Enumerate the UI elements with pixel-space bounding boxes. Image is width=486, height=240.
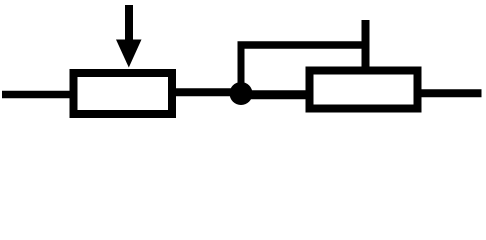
potentiometer R1 body [74, 73, 173, 114]
wire: wiper lead of R2 [362, 20, 370, 73]
wire: loop top horizontal [238, 41, 370, 49]
wire: R1 to junction [175, 88, 240, 96]
wire: junction up to loop [238, 45, 245, 92]
potentiometer R2 body [310, 71, 418, 109]
wire: right lead [420, 89, 482, 97]
wire: junction to R2 [242, 90, 310, 99]
junction node [230, 82, 253, 105]
wire: left lead [2, 91, 74, 99]
wiper arrow of R1 [116, 5, 142, 68]
